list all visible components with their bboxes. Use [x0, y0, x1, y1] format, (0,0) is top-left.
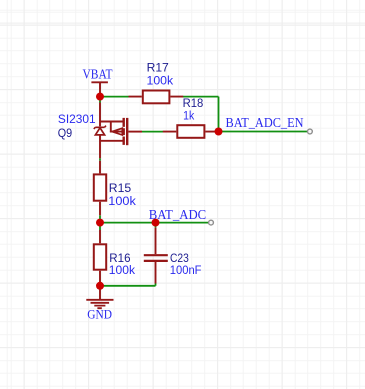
- resistor R15: [94, 161, 106, 216]
- resistor R16: [94, 230, 106, 286]
- wire endpoint: [308, 129, 313, 134]
- resistor R18: [163, 125, 219, 138]
- svg-text:SI2301: SI2301: [58, 112, 96, 126]
- svg-text:R15: R15: [109, 181, 132, 195]
- wire: [142, 131, 163, 133]
- wire: [99, 158, 101, 160]
- svg-text:100k: 100k: [108, 194, 136, 208]
- svg-text:100k: 100k: [109, 263, 136, 277]
- junction node GND: [96, 282, 104, 290]
- junction node BAT_ADC left: [96, 219, 104, 227]
- wire: [155, 223, 157, 228]
- svg-text:R17: R17: [147, 60, 169, 74]
- wire: [155, 284, 157, 286]
- svg-text:1k: 1k: [183, 108, 195, 122]
- wire: [218, 97, 220, 132]
- wire: [219, 131, 309, 133]
- svg-text:100k: 100k: [147, 73, 175, 87]
- junction node BAT_ADC right: [152, 219, 160, 227]
- svg-text:100nF: 100nF: [170, 263, 202, 277]
- svg-text:BAT_ADC_EN: BAT_ADC_EN: [226, 115, 304, 130]
- wire: [99, 97, 101, 103]
- wire: [100, 96, 129, 98]
- transistor Q9 SI2301 P-MOSFET: [94, 103, 142, 159]
- svg-text:GND: GND: [87, 307, 112, 322]
- resistor R17: [129, 91, 184, 104]
- svg-text:Q9: Q9: [58, 126, 73, 140]
- junction node VBAT: [96, 93, 104, 101]
- power flag VBAT: [91, 82, 108, 94]
- wire: [183, 96, 219, 98]
- wire: [99, 215, 101, 222]
- svg-text:VBAT: VBAT: [83, 67, 113, 82]
- capacitor C23: [144, 228, 168, 284]
- junction node BAT_ADC_EN: [215, 128, 223, 136]
- wire: [99, 223, 101, 230]
- wire endpoint: [209, 220, 214, 225]
- wire: [100, 285, 156, 287]
- ground: [86, 286, 113, 308]
- wire: [100, 222, 209, 224]
